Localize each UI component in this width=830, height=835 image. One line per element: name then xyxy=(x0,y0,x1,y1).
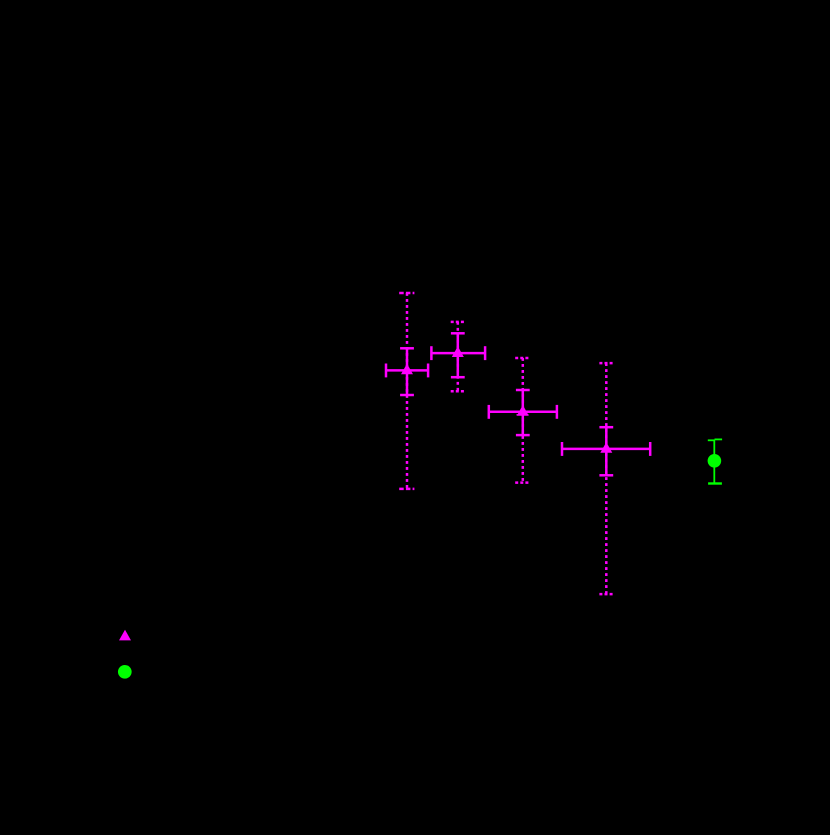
green circle marker xyxy=(708,454,722,468)
short underline below marker 3 xyxy=(517,414,529,416)
legend circle (green) xyxy=(118,665,132,679)
triangle marker 4 xyxy=(600,442,612,453)
horizontal error bar xyxy=(386,369,428,372)
dotted syst error bar (vertical) xyxy=(406,293,409,489)
dotted cap bottom xyxy=(399,488,414,491)
solid stat error bar (vertical) xyxy=(406,348,409,395)
triangle marker 2 xyxy=(452,346,464,357)
triangle marker 1 xyxy=(401,364,413,375)
triangle marker 3 xyxy=(517,405,529,416)
legend triangle (magenta) xyxy=(119,630,131,641)
dotted cap top xyxy=(399,292,414,295)
